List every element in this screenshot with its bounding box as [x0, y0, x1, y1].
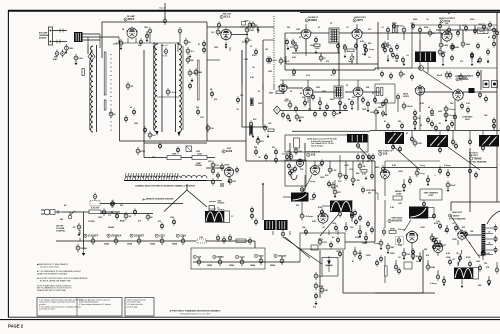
wire jack drop [480, 70, 482, 90]
svg-text:8.2K: 8.2K [446, 253, 451, 255]
ground g32 [419, 258, 422, 262]
junction dot a [153, 42, 155, 44]
svg-text:150: 150 [308, 109, 311, 111]
capacitor C82 [438, 167, 441, 175]
capacitor C28 [291, 39, 294, 47]
wire stub 46 [304, 97, 306, 101]
svg-text:TRANS: TRANS [474, 158, 482, 161]
svg-text:B+: B+ [218, 208, 220, 210]
wire stub 54 [392, 131, 394, 145]
svg-text:68: 68 [420, 125, 422, 127]
4.5mc trap T4 [347, 134, 368, 143]
RF amp label [124, 15, 136, 21]
heater pin 5 [181, 237, 185, 245]
agc diamond [274, 106, 281, 114]
component M28 [394, 263, 397, 271]
component M60 [264, 153, 267, 161]
tuning slug 1 [104, 52, 106, 95]
wire sound box bottom2 [374, 68, 376, 70]
svg-text:68K: 68K [198, 72, 202, 74]
page border top [8, 10, 500, 12]
svg-text:3900: 3900 [330, 99, 334, 101]
wire stub 48 [339, 97, 341, 101]
wire stub 60 [419, 115, 421, 130]
svg-text:470K: 470K [140, 150, 145, 153]
capacitor C47 [286, 113, 289, 121]
wire stub 29 [387, 33, 389, 40]
ground g36 [189, 54, 192, 58]
wire heater wire 1b [206, 240, 255, 242]
svg-text:2.2K: 2.2K [390, 207, 395, 209]
svg-text:1meg: 1meg [419, 173, 425, 175]
wire stub 52 [357, 97, 359, 100]
svg-text:.05: .05 [456, 253, 459, 255]
component M11 [384, 97, 387, 105]
svg-text:2.2K: 2.2K [310, 199, 315, 201]
wire audio left drop [377, 22, 379, 70]
tube V5 3DT6 [352, 28, 363, 41]
svg-text:220: 220 [138, 45, 141, 47]
capacitor C93 [418, 254, 421, 262]
wire stub 121 [488, 276, 490, 280]
wire audio drop e [459, 25, 461, 30]
svg-text:120K: 120K [446, 257, 451, 259]
svg-text:100mF: 100mF [406, 106, 413, 108]
tube V9 video amp [452, 88, 463, 101]
wire stub 5 [135, 38, 137, 43]
svg-text:6DT6: 6DT6 [258, 256, 264, 258]
svg-text:100K: 100K [390, 253, 395, 255]
resistor R28 [343, 103, 346, 111]
component M35 [320, 286, 328, 294]
resistor R6 [167, 153, 181, 159]
svg-text:VERT MULT: VERT MULT [391, 218, 403, 220]
diag if 1 [393, 146, 420, 170]
svg-text:470K: 470K [319, 285, 324, 288]
fill comp 1 [254, 48, 257, 56]
capacitor C1 [65, 44, 75, 52]
capacitor C107 [313, 110, 316, 118]
capacitor C42 [441, 51, 444, 59]
wire stub 137 [69, 212, 71, 215]
svg-text:10K: 10K [406, 254, 410, 256]
wire stub 38 [442, 58, 444, 62]
capacitor C27 [285, 38, 288, 46]
resistor R3 [188, 69, 196, 77]
wire audio rail mid [375, 67, 412, 69]
wire stub 122 [354, 247, 356, 251]
ground ant [75, 61, 78, 65]
svg-text:.05: .05 [398, 257, 401, 259]
wire if link wire [240, 26, 274, 28]
svg-text:.039: .039 [444, 231, 448, 233]
wire fine tuning wire [144, 142, 207, 144]
svg-text:820: 820 [398, 121, 401, 123]
capacitor C37 [447, 26, 450, 34]
svg-text:3900: 3900 [378, 107, 382, 109]
svg-text:68: 68 [122, 29, 124, 31]
wire if vert 2 [262, 40, 264, 127]
component M46 [460, 102, 463, 110]
ground power 2 [82, 250, 86, 255]
heater pin 2 [114, 237, 118, 245]
trap pin a [356, 142, 359, 150]
ground g20 [359, 234, 362, 238]
wire stub 37 [387, 55, 389, 60]
wire stub 136 [79, 238, 81, 241]
wire if drop b [339, 103, 341, 111]
svg-text:.05: .05 [348, 209, 351, 211]
wire sound rail 2 [286, 63, 378, 65]
wire hv wire [466, 234, 481, 236]
wire sound wire 3 [339, 32, 352, 34]
wire stub 75 [334, 180, 336, 189]
capacitor C34 [392, 22, 395, 30]
heater pin 8 [240, 258, 244, 266]
wire stub 43 [357, 80, 359, 87]
wire ant lead bottom [53, 41, 68, 43]
wire stub 88 [289, 231, 291, 235]
resistor R39 [444, 111, 456, 119]
can pin h [468, 138, 471, 146]
svg-text:560K: 560K [390, 229, 395, 231]
wire stub 14 [225, 34, 227, 40]
capacitor C6 [139, 38, 142, 46]
coil link bottom [157, 96, 179, 98]
ground g5 [387, 58, 390, 62]
wire hor right drop [374, 161, 376, 242]
svg-text:1.5K: 1.5K [332, 170, 337, 172]
can pin b [413, 139, 423, 147]
2nd video if label [378, 151, 393, 156]
svg-text:20mF: 20mF [437, 75, 443, 77]
component M70 [395, 53, 398, 61]
svg-text:150: 150 [484, 263, 487, 265]
capacitor C21 [102, 208, 105, 216]
ground osc [228, 179, 231, 183]
wire audio drop d [474, 25, 476, 33]
svg-text:3DT6: 3DT6 [357, 19, 364, 22]
svg-text:CONT: CONT [396, 193, 402, 195]
heater 6BQ7A [274, 254, 286, 257]
component M29 [397, 267, 400, 275]
capacitor C18 [211, 161, 219, 169]
wire stub 100 [411, 243, 413, 250]
fill comp 10 [464, 230, 467, 238]
svg-text:12: 12 [250, 46, 252, 48]
capacitor C103 [389, 72, 392, 80]
wire video wire 2 [463, 91, 497, 93]
diag to focus [283, 237, 322, 264]
wire stub 3 [177, 43, 179, 52]
component M32 [495, 266, 499, 274]
wire stub 11 [118, 37, 120, 43]
wire hv label drop [450, 202, 452, 211]
speaker [205, 211, 224, 223]
fill comp 6 [254, 148, 257, 156]
audio stage box [412, 24, 497, 26]
wire stub 69 [329, 161, 331, 167]
wire stub 45 [289, 100, 291, 103]
wire stub 116 [443, 276, 445, 279]
svg-text:1meg: 1meg [369, 49, 375, 51]
wire stub 65 [454, 100, 456, 112]
wire stub 72 [362, 161, 364, 164]
svg-text:1000: 1000 [362, 109, 366, 111]
svg-text:100K: 100K [443, 45, 448, 47]
svg-text:4.7K: 4.7K [362, 173, 367, 176]
component M71 [438, 48, 446, 56]
svg-text:100K: 100K [172, 153, 177, 155]
vert lin box [420, 189, 442, 200]
component M77 [294, 147, 303, 155]
svg-text:.0047: .0047 [465, 43, 471, 46]
wire stub 89 [272, 231, 274, 235]
wire stub 20 [305, 53, 307, 56]
audio output transformer T2 [415, 52, 436, 63]
svg-text:820: 820 [462, 227, 465, 229]
fill comp 23 [196, 108, 199, 116]
vert output transformer T9 [409, 207, 428, 219]
wire stub 81 [322, 205, 330, 207]
capacitor C64 [328, 166, 337, 174]
agc box [375, 84, 395, 103]
wire stub 19 [295, 42, 297, 45]
wire fine tuning drop [143, 50, 145, 158]
capacitor C40 [383, 46, 386, 54]
capacitor C86 [386, 243, 395, 251]
ground g37 [246, 32, 249, 36]
wire if drop c [357, 97, 359, 111]
ground focus [315, 301, 318, 305]
ground g33 [252, 134, 255, 138]
wire if wire 4 [363, 91, 380, 93]
cap C26 bar [257, 29, 259, 31]
resistor R16 [418, 26, 421, 34]
wire stub 17 [305, 24, 307, 29]
resistor R50 [438, 241, 446, 249]
svg-text:1B3GT: 1B3GT [453, 216, 461, 218]
resistor R12 [314, 44, 320, 50]
component M30 [375, 259, 378, 267]
on-off switch [68, 215, 72, 219]
ground g2 [315, 50, 318, 54]
wire stub 58 [452, 131, 454, 140]
heater comp a [216, 234, 219, 242]
svg-text:TUNING: TUNING [195, 165, 203, 167]
ground g22 [403, 188, 406, 192]
ground g21 [365, 240, 368, 244]
component M31 [481, 249, 488, 257]
svg-text:.05: .05 [322, 227, 325, 229]
svg-text:22K: 22K [463, 77, 467, 79]
audio out tube label [455, 75, 473, 81]
svg-text:1meK: 1meK [416, 261, 422, 263]
pointer line left [164, 190, 187, 212]
capacitor C69 [356, 153, 359, 161]
tuning slug 2 [198, 60, 200, 100]
fill comp 7 [274, 148, 277, 156]
osc label [222, 148, 233, 153]
wire stub 108 [469, 242, 471, 244]
capacitor C49 [318, 99, 321, 107]
wire sound rail [292, 52, 340, 54]
component M44 [450, 120, 453, 128]
capacitor C31 [343, 44, 346, 52]
CRT pin 2 [494, 235, 497, 243]
ground g4 [364, 52, 367, 56]
svg-text:47: 47 [384, 120, 386, 123]
capacitor C78 [364, 234, 367, 242]
capacitor C56 [402, 102, 413, 110]
fill comp 22 [132, 108, 135, 116]
1st video if label [306, 152, 321, 157]
interstage coil L2a [155, 44, 157, 132]
resistor R38 [444, 105, 456, 113]
CRT bell [487, 211, 500, 224]
svg-text:1meg: 1meg [374, 243, 380, 245]
wire stub 94 [416, 168, 418, 171]
capacitor C43 [470, 51, 473, 59]
svg-text:6CG8: 6CG8 [226, 150, 233, 153]
ground if4 [257, 136, 260, 140]
tube V3 6CG8 [224, 166, 234, 178]
ground g18 [365, 176, 368, 180]
wire heater bend [254, 241, 256, 248]
svg-text:FINAL MODELS AT PICTURE TUBE.: FINAL MODELS AT PICTURE TUBE. [37, 289, 67, 292]
capacitor C68 [333, 188, 341, 196]
fill comp 27 [172, 218, 175, 226]
svg-text:17C5: 17C5 [159, 236, 165, 238]
tube V4 6AW8A sound if [301, 28, 312, 41]
wire crt box bottom [375, 292, 435, 294]
wire stub 131 [241, 257, 243, 260]
wire stub 127 [161, 236, 163, 239]
component M7 [279, 57, 290, 65]
heater pin 3 [137, 237, 141, 245]
heater 17BQ6 [107, 234, 122, 237]
wire stub 109 [384, 256, 386, 266]
svg-text:OSC: OSC [208, 161, 213, 163]
wire stub 59 [469, 131, 471, 140]
wire tuner box partition [206, 22, 208, 141]
component M76 [338, 250, 341, 258]
wire if vert 1 [241, 50, 243, 127]
coil L2a core [161, 44, 163, 132]
ground g3 [344, 54, 347, 58]
resistor R25 [295, 113, 305, 121]
capacitor C91 [379, 255, 382, 263]
svg-text:3.3K: 3.3K [200, 117, 205, 119]
resistor R56 [236, 239, 246, 242]
heater pin 10 [280, 257, 284, 265]
junction dot c [111, 211, 113, 213]
capacitor C15 [245, 36, 252, 44]
hor out box [300, 233, 345, 249]
heater 12B4 [176, 234, 186, 237]
ground audio out2 [487, 59, 490, 63]
diode D2 [327, 261, 331, 266]
wire long drop right [469, 148, 471, 212]
wire right edge drop [496, 131, 498, 202]
component M55 [202, 40, 205, 48]
svg-text:3.9K: 3.9K [466, 103, 471, 105]
resistor R13 [363, 42, 366, 50]
capacitor C45 [284, 101, 292, 110]
component M48 [468, 167, 471, 175]
svg-text:120K: 120K [478, 24, 483, 26]
wire stub 68 [314, 161, 316, 165]
component M20 [336, 236, 339, 244]
heater pin 6 [197, 258, 201, 266]
coil strip hatching [125, 173, 126, 180]
component M68 [381, 42, 384, 50]
resistor R9 [146, 213, 153, 221]
svg-text:470K: 470K [434, 222, 439, 225]
capacitor C62 [492, 117, 495, 125]
capacitor C97 [73, 223, 81, 231]
fill comp 18 [350, 210, 353, 218]
wire if drop a [309, 97, 311, 111]
ground g40 [65, 50, 68, 54]
component M33 [353, 249, 363, 257]
ground g25 [380, 246, 383, 250]
resistor R34 [381, 88, 383, 96]
wire box bottom y293 [343, 292, 423, 294]
capacitor C75 [354, 218, 357, 226]
wire vert section rail [383, 167, 497, 169]
wire stub 21 [320, 53, 322, 56]
can pin a [410, 135, 413, 143]
heater 6DT6 [254, 254, 264, 257]
can pin g [454, 142, 457, 150]
tube V17 hor output [318, 212, 329, 225]
resistor R24 [294, 105, 297, 113]
ground g15 [445, 118, 448, 122]
ground g23 [427, 182, 430, 186]
heater 6CL8 [235, 255, 245, 258]
wire top rail [140, 21, 165, 23]
capacitor C67 [331, 182, 339, 190]
svg-text:6.8K: 6.8K [360, 41, 365, 43]
capacitor C11 [186, 56, 194, 64]
wire hor rail right [345, 241, 375, 243]
wire stub 128 [182, 236, 184, 239]
resistor R11 [314, 36, 317, 44]
svg-text:1000: 1000 [170, 217, 174, 219]
wire ac wire 2 [101, 211, 120, 213]
svg-text:.01: .01 [381, 27, 384, 29]
capacitor C94 [442, 277, 445, 285]
capacitor C44 [486, 48, 489, 56]
heater 6AW8A [213, 255, 224, 258]
fill comp 4 [292, 68, 295, 76]
can pin e [438, 146, 441, 154]
hor freq pot [361, 186, 364, 194]
component M23 [290, 167, 293, 175]
wire balun out 2 [83, 36, 120, 38]
coil L2b core [175, 44, 177, 132]
audio det label [353, 16, 366, 22]
svg-text:1000: 1000 [476, 261, 480, 263]
wire stub 40 [483, 30, 485, 33]
svg-text:500K: 500K [454, 47, 459, 49]
wire stub 57 [411, 131, 413, 137]
1mF box [478, 28, 489, 34]
dual volume pot [393, 26, 395, 33]
wire audio grid wire [412, 32, 442, 34]
capacitor C33 [386, 26, 389, 34]
